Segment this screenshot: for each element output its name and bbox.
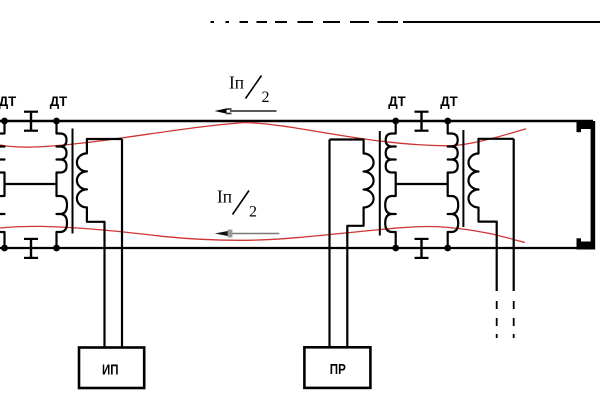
svg-text:ДТ: ДТ: [440, 93, 458, 109]
svg-text:ДТ: ДТ: [388, 93, 406, 109]
svg-text:2: 2: [262, 89, 270, 106]
svg-text:ПР: ПР: [330, 361, 346, 378]
svg-text:2: 2: [249, 204, 257, 221]
svg-text:Iп: Iп: [229, 73, 244, 93]
svg-text:ДТ: ДТ: [50, 93, 68, 109]
svg-text:ИП: ИП: [102, 362, 119, 379]
svg-text:ДТ: ДТ: [0, 93, 17, 109]
svg-text:Iп: Iп: [217, 187, 232, 207]
